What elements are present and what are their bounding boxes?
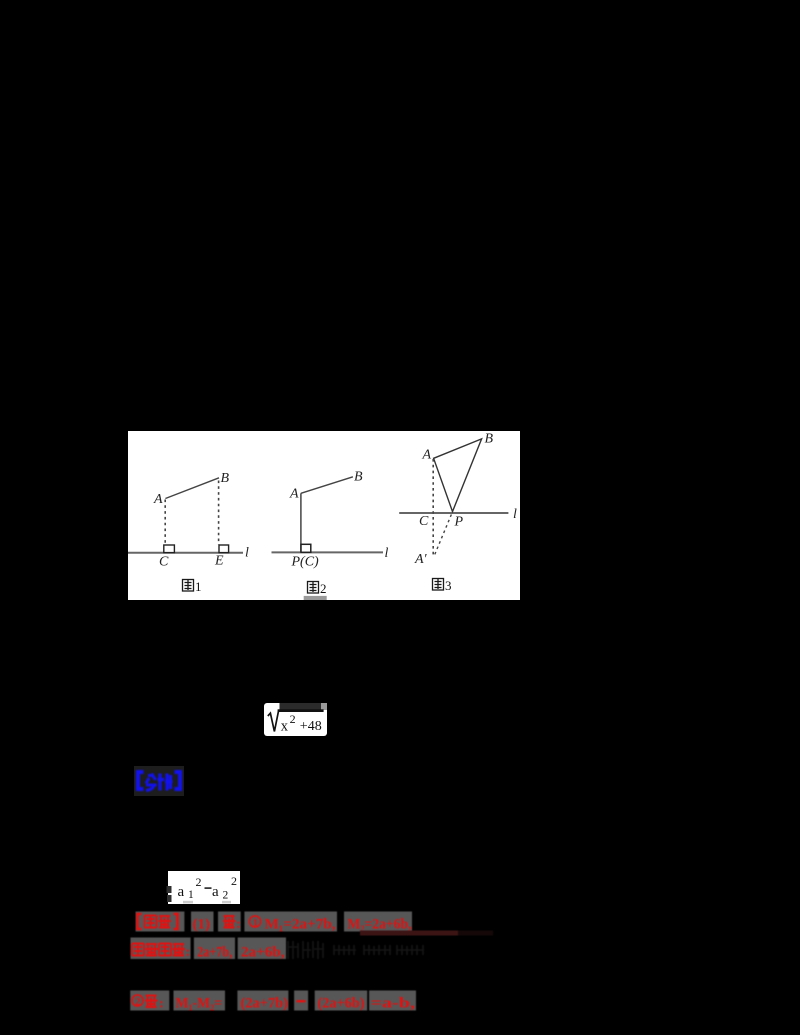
blue analysis label [134, 766, 184, 796]
wire segment AB fig1 [165, 478, 219, 499]
figure panel (white box with 图1 图2 图3) [128, 431, 520, 600]
svg-text:A: A [422, 448, 432, 463]
svg-text:B: B [354, 470, 363, 485]
svg-text:2a+6b,: 2a+6b, [241, 945, 285, 961]
red jie: line3 [145, 996, 158, 1008]
svg-text:A: A [289, 487, 299, 502]
faint dark leftover text line2 [288, 941, 424, 959]
char xi [158, 774, 173, 791]
svg-text:2: 2 [231, 874, 237, 888]
svg-text:B: B [221, 471, 230, 486]
svg-text:M₂=2a+6b,: M₂=2a+6b, [348, 917, 412, 933]
svg-text:1: 1 [188, 889, 194, 901]
svg-text:=a-b,: =a-b, [371, 996, 416, 1012]
red jie: [223, 916, 236, 928]
radical hook [268, 710, 279, 731]
wire line l fig3 [399, 512, 508, 514]
svg-text:1: 1 [253, 917, 258, 929]
svg-text:B: B [485, 432, 494, 447]
svg-text:+48: +48 [300, 719, 322, 734]
right bracket [175, 772, 181, 789]
svg-text:2: 2 [196, 875, 202, 889]
dark gray cut glyph at patch left edge [165, 885, 174, 903]
svg-text:P: P [454, 515, 464, 530]
red bracket jieda bracket [138, 914, 142, 929]
a1^2 - a2^2 formula patch [168, 871, 240, 904]
caption tu3 [433, 579, 444, 591]
svg-text:(2a+6b): (2a+6b) [318, 996, 365, 1012]
right-angle square at C fig1 [164, 545, 175, 553]
wire dashed AC fig1 [164, 500, 166, 545]
wire dashed AA' fig3 [432, 459, 434, 555]
red answer text block [125, 905, 525, 1015]
svg-text:2: 2 [320, 581, 327, 596]
svg-text:A: A [153, 492, 163, 507]
dark band above radical [280, 703, 322, 710]
svg-text:2: 2 [223, 890, 229, 902]
red minus [297, 1000, 306, 1002]
svg-text:C: C [419, 514, 429, 529]
wire dashed BE fig1 [218, 481, 220, 545]
sqrt(x^2+48) formula patch [264, 703, 327, 736]
svg-text:3: 3 [445, 578, 452, 593]
svg-text:M₁-M₂=: M₁-M₂= [176, 996, 223, 1012]
svg-text:l: l [385, 546, 389, 561]
svg-text:2a+7b,: 2a+7b, [197, 945, 232, 961]
smudge under tu2 [304, 596, 327, 600]
svg-text:1: 1 [195, 579, 202, 594]
red circled 2 [132, 995, 143, 1006]
char fen [146, 774, 157, 791]
svg-text::: : [236, 917, 241, 932]
svg-text:E: E [214, 554, 224, 569]
svg-text:2: 2 [290, 711, 296, 725]
left bracket [138, 772, 144, 789]
svg-text:A′: A′ [414, 552, 428, 567]
faint smudges [183, 901, 193, 904]
wire dashed A'P fig3 [435, 513, 452, 555]
svg-text:x: x [281, 718, 289, 734]
svg-text:P(C): P(C) [291, 555, 320, 570]
gray highlight boxes line2 [131, 938, 287, 960]
wire segment AB fig2 [301, 477, 353, 494]
svg-text:a: a [212, 884, 219, 900]
caption tu1 [183, 580, 194, 592]
svg-text::: : [186, 945, 191, 960]
svg-text::: : [159, 997, 164, 1012]
right-angle square at P fig2 [301, 544, 311, 552]
gray highlight boxes line3 [130, 991, 416, 1011]
svg-text:(1): (1) [193, 917, 211, 933]
gray highlight boxes line1 [136, 912, 412, 932]
radical bar [278, 709, 324, 712]
wire triangle ABP fig3 [434, 439, 482, 512]
minus [205, 887, 212, 889]
svg-text:C: C [159, 555, 169, 570]
right-angle square at E fig1 [219, 545, 229, 553]
svg-text:(2a+7b): (2a+7b) [241, 996, 289, 1012]
red four chars + colon [132, 944, 144, 956]
wire line l fig1 [128, 552, 243, 554]
svg-text:M₁=2a+7b,: M₁=2a+7b, [265, 917, 336, 933]
wire vertical AP fig2 [300, 493, 302, 552]
wire line l fig2 [272, 551, 384, 553]
red circled 1 [249, 916, 260, 927]
dark red ghost bar under line1 [360, 931, 458, 936]
svg-text:a: a [178, 884, 185, 900]
svg-text:2: 2 [135, 996, 141, 1008]
svg-text:l: l [245, 546, 249, 561]
svg-text:l: l [513, 507, 517, 522]
caption tu2 [308, 582, 319, 594]
